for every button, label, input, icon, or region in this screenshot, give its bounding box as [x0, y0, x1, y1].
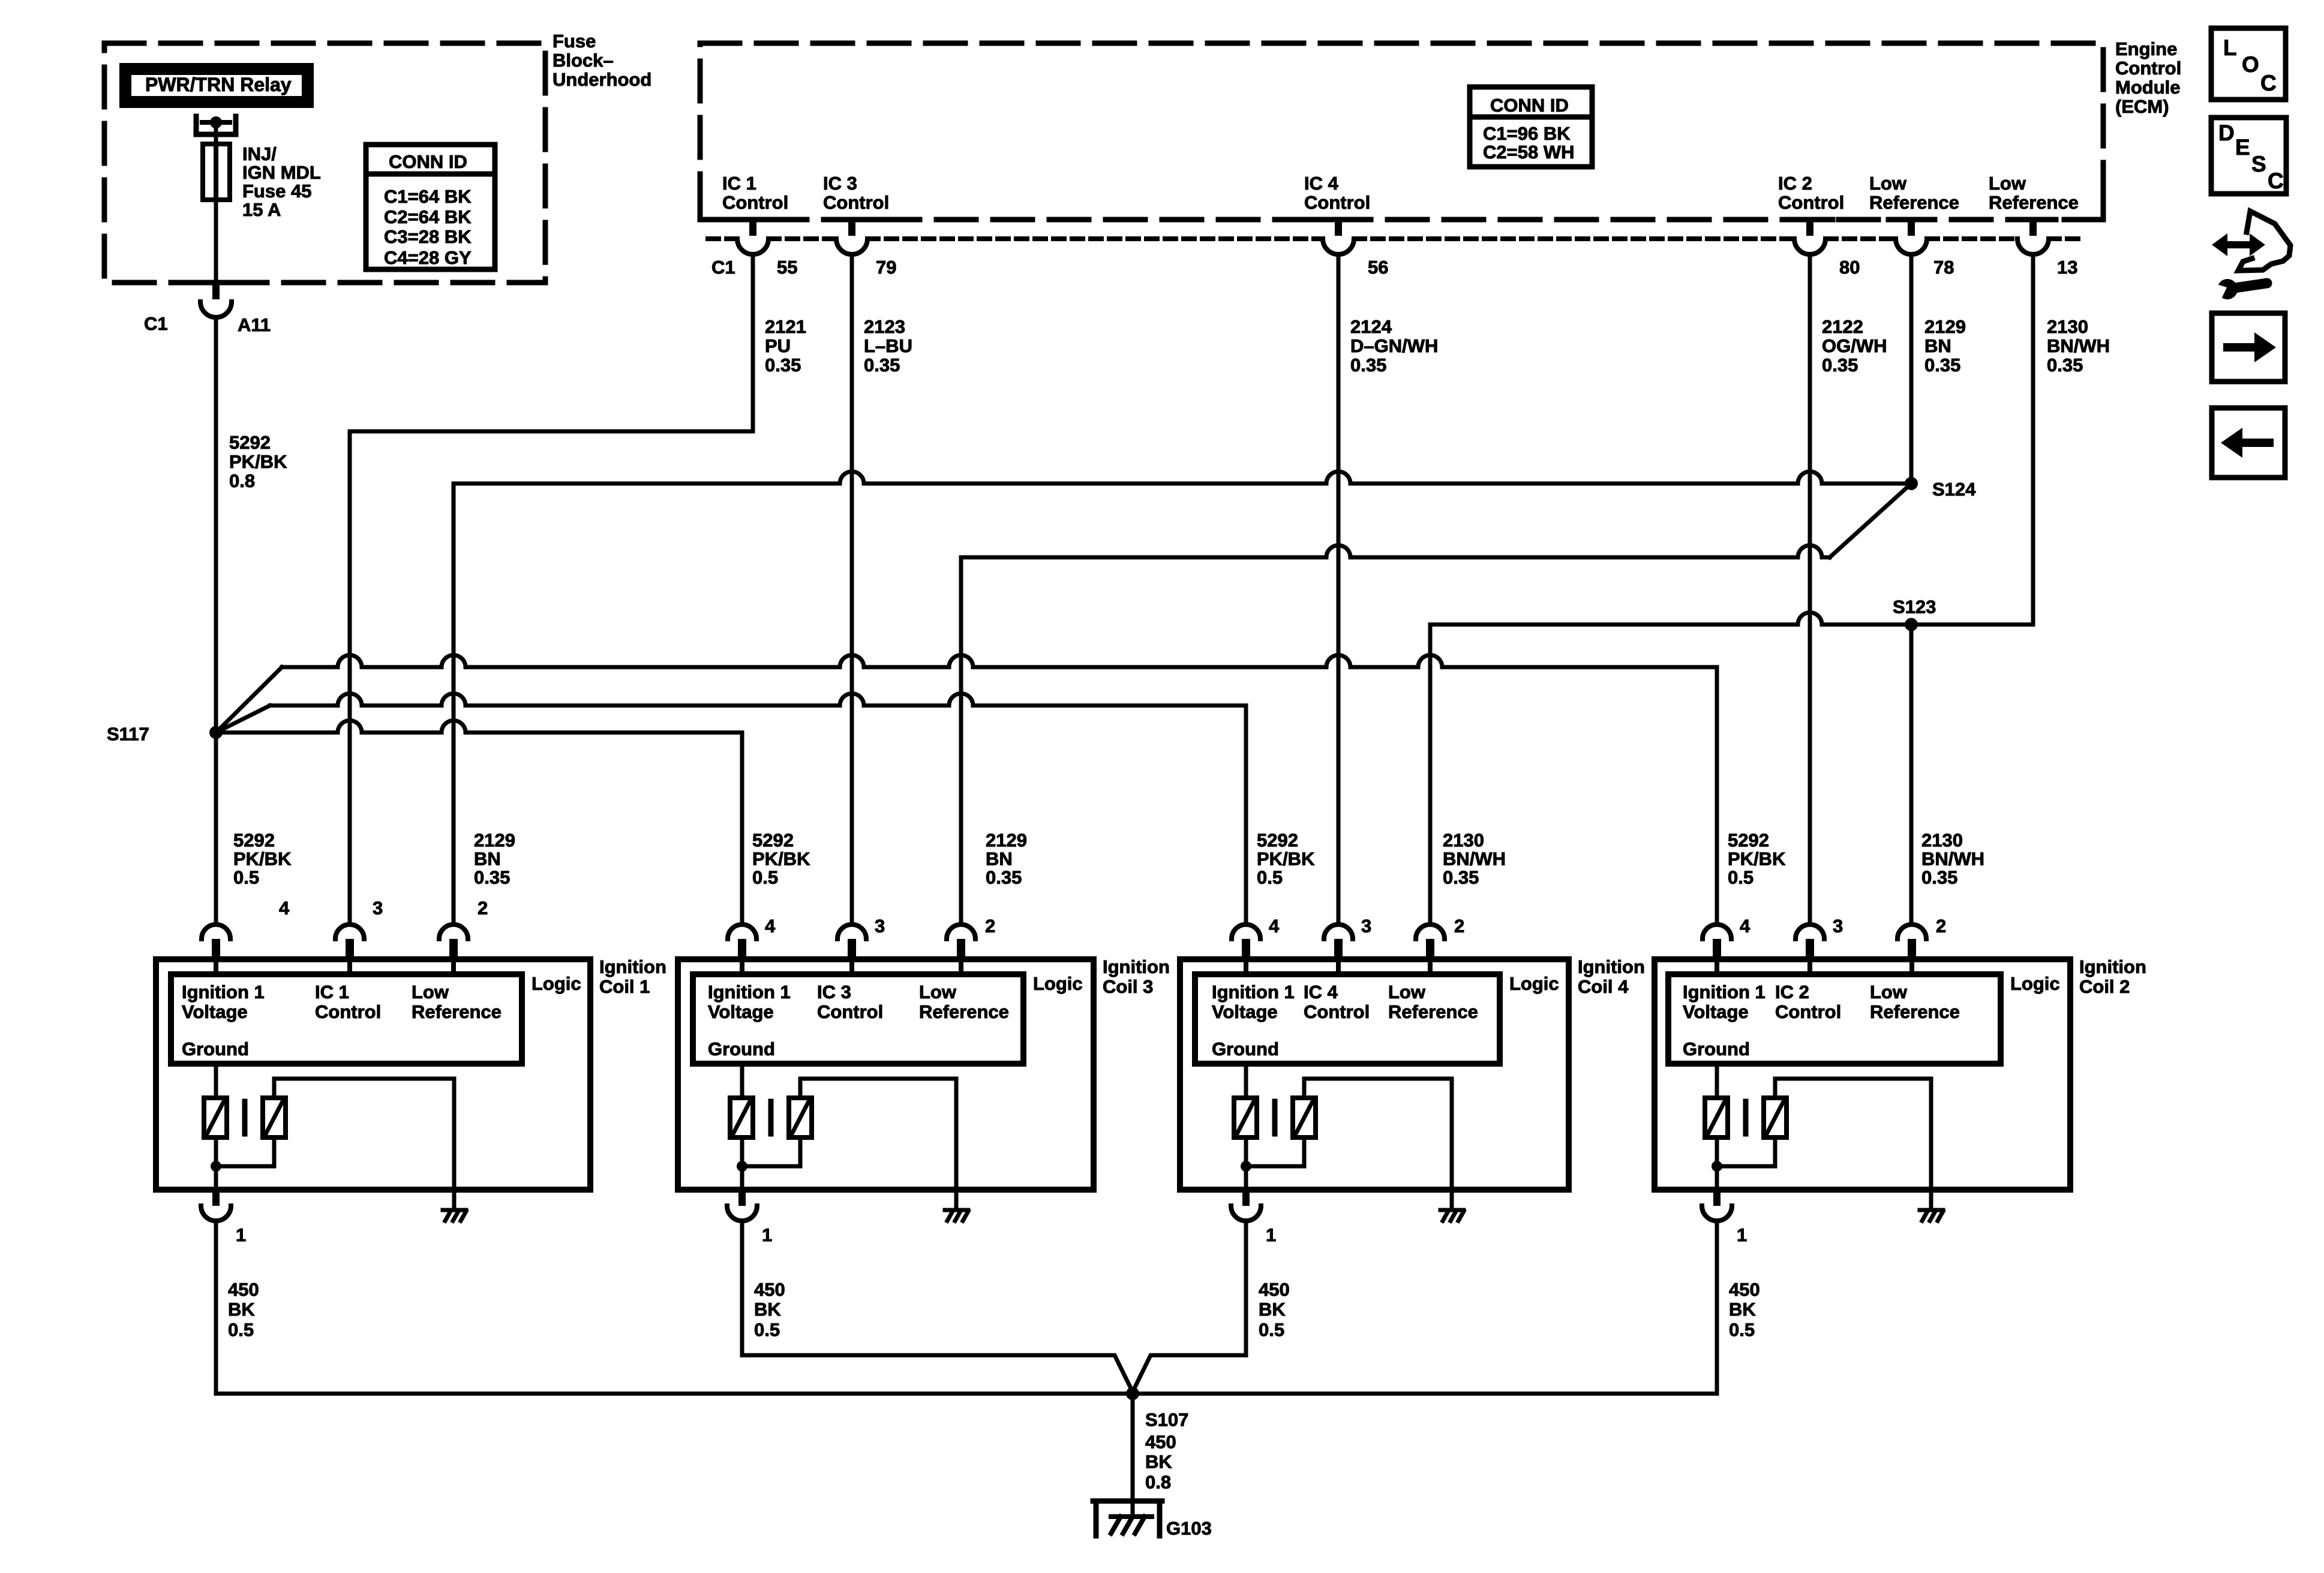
- svg-text:Control: Control: [1775, 1001, 1841, 1022]
- svg-text:5292: 5292: [1728, 830, 1769, 851]
- svg-text:IC 2: IC 2: [1778, 173, 1812, 194]
- svg-text:S: S: [2251, 152, 2266, 176]
- svg-text:E: E: [2235, 135, 2250, 160]
- svg-text:Fuse 45: Fuse 45: [242, 181, 311, 202]
- svg-text:A11: A11: [238, 314, 271, 335]
- svg-text:C1: C1: [144, 313, 168, 334]
- svg-text:0.35: 0.35: [986, 867, 1022, 888]
- svg-text:C: C: [2260, 71, 2277, 95]
- svg-text:1: 1: [1737, 1224, 1747, 1245]
- svg-text:BN: BN: [474, 848, 501, 869]
- svg-text:Ground: Ground: [708, 1038, 775, 1059]
- svg-text:3: 3: [1833, 915, 1843, 936]
- svg-text:BN/WH: BN/WH: [1921, 848, 1984, 869]
- svg-text:2129: 2129: [986, 830, 1027, 851]
- svg-text:Ignition: Ignition: [2079, 956, 2146, 977]
- svg-text:0.35: 0.35: [1921, 867, 1957, 888]
- svg-text:0.5: 0.5: [1729, 1319, 1755, 1340]
- svg-text:D–GN/WH: D–GN/WH: [1350, 335, 1438, 356]
- svg-text:Logic: Logic: [1509, 973, 1559, 994]
- svg-text:Low: Low: [1388, 981, 1426, 1002]
- svg-text:4: 4: [1740, 915, 1750, 936]
- svg-text:450: 450: [1259, 1279, 1290, 1300]
- svg-text:1: 1: [1266, 1224, 1276, 1245]
- svg-text:PK/BK: PK/BK: [752, 848, 810, 869]
- svg-text:C2=64 BK: C2=64 BK: [384, 206, 472, 227]
- svg-text:IC 4: IC 4: [1304, 173, 1339, 194]
- svg-text:0.35: 0.35: [765, 355, 801, 376]
- svg-text:Ignition: Ignition: [1103, 956, 1170, 977]
- svg-text:0.5: 0.5: [754, 1319, 780, 1340]
- svg-text:2: 2: [985, 915, 995, 936]
- svg-text:BK: BK: [1145, 1451, 1172, 1472]
- svg-text:Reference: Reference: [1870, 1001, 1960, 1022]
- svg-text:IGN MDL: IGN MDL: [242, 162, 321, 183]
- svg-text:C1=96 BK: C1=96 BK: [1483, 123, 1571, 144]
- svg-text:4: 4: [279, 897, 290, 918]
- svg-text:G103: G103: [1166, 1518, 1212, 1539]
- svg-text:2130: 2130: [1921, 830, 1963, 851]
- svg-text:BN/WH: BN/WH: [1443, 848, 1506, 869]
- svg-text:Logic: Logic: [532, 973, 581, 994]
- svg-text:C: C: [2268, 169, 2284, 193]
- svg-text:BK: BK: [754, 1299, 781, 1320]
- svg-text:IC 4: IC 4: [1304, 981, 1338, 1002]
- svg-text:0.5: 0.5: [1259, 1319, 1284, 1340]
- svg-text:Low: Low: [1989, 173, 2026, 194]
- svg-text:55: 55: [777, 257, 797, 278]
- svg-text:Reference: Reference: [919, 1001, 1009, 1022]
- svg-text:S107: S107: [1145, 1409, 1188, 1430]
- svg-text:450: 450: [754, 1279, 785, 1300]
- svg-text:Ignition: Ignition: [599, 956, 666, 977]
- svg-text:S124: S124: [1932, 479, 1976, 500]
- svg-text:Low: Low: [919, 981, 957, 1002]
- svg-text:2: 2: [1936, 915, 1946, 936]
- svg-text:BK: BK: [1729, 1299, 1756, 1320]
- svg-text:BN: BN: [986, 848, 1013, 869]
- svg-text:PK/BK: PK/BK: [1728, 848, 1786, 869]
- svg-text:3: 3: [875, 915, 885, 936]
- svg-text:2130: 2130: [2047, 316, 2088, 337]
- svg-text:Control: Control: [2115, 58, 2181, 79]
- svg-text:80: 80: [1839, 257, 1860, 278]
- svg-text:Underhood: Underhood: [553, 69, 651, 90]
- svg-text:Block–: Block–: [553, 50, 614, 71]
- svg-text:2: 2: [478, 897, 488, 918]
- svg-text:BN: BN: [1924, 335, 1951, 356]
- svg-text:1: 1: [236, 1224, 246, 1245]
- svg-text:Engine: Engine: [2115, 38, 2177, 59]
- svg-text:2129: 2129: [1924, 316, 1966, 337]
- svg-text:0.35: 0.35: [1443, 867, 1479, 888]
- svg-text:(ECM): (ECM): [2115, 96, 2169, 117]
- svg-text:Ignition 1: Ignition 1: [1212, 981, 1295, 1002]
- svg-text:2122: 2122: [1822, 316, 1863, 337]
- svg-text:2121: 2121: [765, 316, 806, 337]
- svg-text:Ground: Ground: [182, 1038, 249, 1059]
- svg-text:2: 2: [1454, 915, 1464, 936]
- svg-text:0.35: 0.35: [2047, 355, 2083, 376]
- svg-text:78: 78: [1933, 257, 1954, 278]
- svg-text:IC 1: IC 1: [315, 981, 349, 1002]
- svg-text:Reference: Reference: [412, 1001, 502, 1022]
- svg-text:0.5: 0.5: [1257, 867, 1283, 888]
- svg-text:4: 4: [1269, 915, 1280, 936]
- svg-text:C3=28 BK: C3=28 BK: [384, 226, 472, 247]
- svg-text:4: 4: [765, 915, 776, 936]
- svg-text:3: 3: [1361, 915, 1371, 936]
- svg-text:Ignition: Ignition: [1578, 956, 1645, 977]
- svg-text:OG/WH: OG/WH: [1822, 335, 1887, 356]
- svg-text:1: 1: [762, 1224, 772, 1245]
- svg-text:0.35: 0.35: [1822, 355, 1858, 376]
- svg-text:3: 3: [373, 897, 383, 918]
- svg-text:Voltage: Voltage: [182, 1001, 248, 1022]
- svg-text:IC 3: IC 3: [817, 981, 851, 1002]
- svg-text:2123: 2123: [864, 316, 905, 337]
- svg-text:INJ/: INJ/: [242, 143, 277, 164]
- svg-text:0.8: 0.8: [1145, 1472, 1171, 1493]
- svg-text:C4=28 GY: C4=28 GY: [384, 247, 472, 268]
- svg-text:5292: 5292: [229, 432, 271, 453]
- svg-text:0.5: 0.5: [233, 867, 259, 888]
- svg-text:L: L: [2223, 35, 2237, 60]
- svg-text:IC 2: IC 2: [1775, 981, 1809, 1002]
- svg-text:BK: BK: [1259, 1299, 1286, 1320]
- svg-text:S117: S117: [107, 724, 149, 745]
- svg-text:IC 1: IC 1: [722, 173, 756, 194]
- svg-text:Low: Low: [412, 981, 449, 1002]
- svg-text:Ignition 1: Ignition 1: [708, 981, 791, 1002]
- svg-text:Low: Low: [1870, 981, 1908, 1002]
- svg-text:0.5: 0.5: [1728, 867, 1753, 888]
- svg-text:Reference: Reference: [1989, 192, 2079, 213]
- svg-text:Ignition 1: Ignition 1: [182, 981, 265, 1002]
- svg-text:C1=64 BK: C1=64 BK: [384, 186, 472, 207]
- svg-text:BK: BK: [228, 1299, 255, 1320]
- svg-text:5292: 5292: [1257, 830, 1298, 851]
- svg-text:Logic: Logic: [2010, 973, 2060, 994]
- svg-text:56: 56: [1368, 257, 1388, 278]
- svg-text:13: 13: [2057, 257, 2077, 278]
- svg-text:CONN ID: CONN ID: [1490, 95, 1569, 116]
- svg-text:0.35: 0.35: [1350, 355, 1386, 376]
- svg-text:L–BU: L–BU: [864, 335, 912, 356]
- svg-text:Coil 3: Coil 3: [1103, 976, 1153, 997]
- svg-text:PK/BK: PK/BK: [233, 848, 292, 869]
- svg-text:79: 79: [876, 257, 896, 278]
- svg-text:Module: Module: [2115, 77, 2181, 98]
- svg-text:Fuse: Fuse: [553, 31, 596, 52]
- svg-text:Coil 4: Coil 4: [1578, 976, 1629, 997]
- svg-text:0.35: 0.35: [864, 355, 900, 376]
- svg-text:PU: PU: [765, 335, 791, 356]
- svg-text:0.35: 0.35: [1924, 355, 1960, 376]
- svg-text:Voltage: Voltage: [1683, 1001, 1749, 1022]
- svg-text:Low: Low: [1869, 173, 1907, 194]
- svg-text:Coil 1: Coil 1: [599, 976, 650, 997]
- svg-text:Voltage: Voltage: [1212, 1001, 1278, 1022]
- svg-text:5292: 5292: [233, 830, 275, 851]
- svg-text:Logic: Logic: [1033, 973, 1083, 994]
- svg-text:Control: Control: [823, 192, 889, 213]
- svg-text:2124: 2124: [1350, 316, 1392, 337]
- svg-text:Control: Control: [817, 1001, 883, 1022]
- svg-text:2130: 2130: [1443, 830, 1484, 851]
- svg-text:S123: S123: [1893, 596, 1936, 617]
- svg-text:IC 3: IC 3: [823, 173, 857, 194]
- svg-text:2129: 2129: [474, 830, 515, 851]
- svg-text:Control: Control: [1304, 192, 1370, 213]
- svg-text:450: 450: [1729, 1279, 1760, 1300]
- svg-text:C2=58 WH: C2=58 WH: [1483, 142, 1574, 163]
- svg-text:O: O: [2242, 52, 2259, 77]
- svg-text:Control: Control: [1778, 192, 1844, 213]
- svg-text:Control: Control: [315, 1001, 381, 1022]
- svg-text:Control: Control: [1304, 1001, 1370, 1022]
- svg-text:BN/WH: BN/WH: [2047, 335, 2110, 356]
- svg-text:Voltage: Voltage: [708, 1001, 774, 1022]
- svg-text:Reference: Reference: [1869, 192, 1959, 213]
- svg-text:Ignition 1: Ignition 1: [1683, 981, 1765, 1002]
- svg-text:5292: 5292: [752, 830, 794, 851]
- svg-text:0.5: 0.5: [228, 1319, 254, 1340]
- svg-text:Coil 2: Coil 2: [2079, 976, 2130, 997]
- svg-text:D: D: [2218, 121, 2235, 145]
- svg-text:PWR/TRN Relay: PWR/TRN Relay: [145, 74, 292, 95]
- svg-text:0.35: 0.35: [474, 867, 510, 888]
- svg-text:0.5: 0.5: [752, 867, 778, 888]
- svg-text:450: 450: [1145, 1431, 1176, 1452]
- svg-text:C1: C1: [711, 257, 735, 278]
- svg-text:450: 450: [228, 1279, 259, 1300]
- svg-text:CONN ID: CONN ID: [389, 151, 467, 172]
- svg-text:Ground: Ground: [1683, 1038, 1750, 1059]
- svg-text:PK/BK: PK/BK: [1257, 848, 1315, 869]
- svg-text:15 A: 15 A: [242, 199, 281, 220]
- svg-text:Ground: Ground: [1212, 1038, 1279, 1059]
- svg-text:0.8: 0.8: [229, 470, 255, 491]
- svg-text:Control: Control: [722, 192, 788, 213]
- svg-text:PK/BK: PK/BK: [229, 451, 287, 472]
- svg-text:Reference: Reference: [1388, 1001, 1478, 1022]
